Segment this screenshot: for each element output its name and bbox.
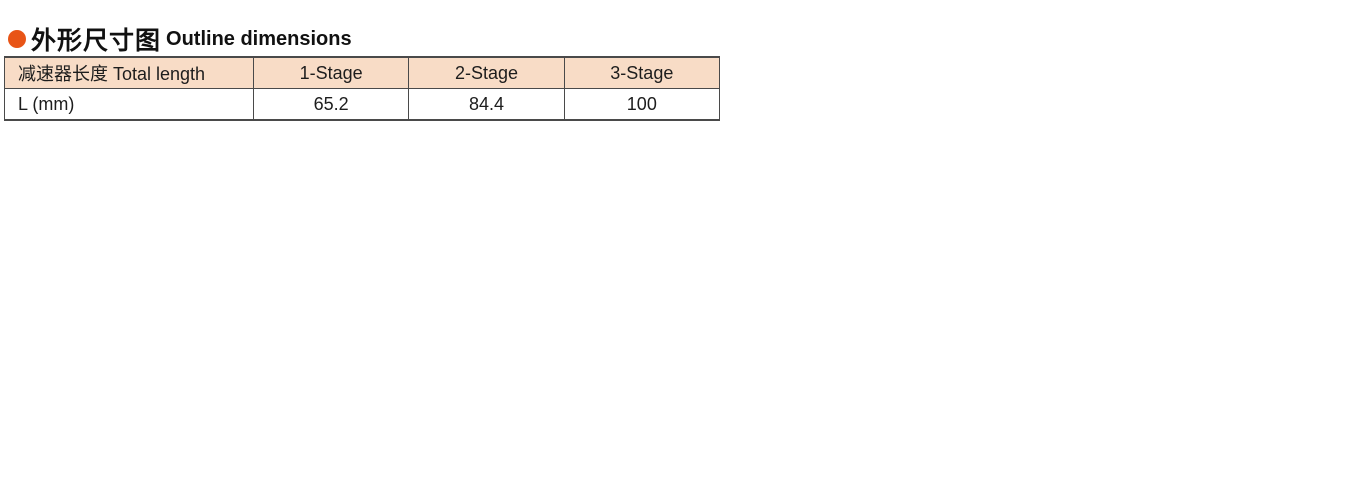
title bullet (8, 21, 352, 57)
table: total length (4, 56, 720, 121)
